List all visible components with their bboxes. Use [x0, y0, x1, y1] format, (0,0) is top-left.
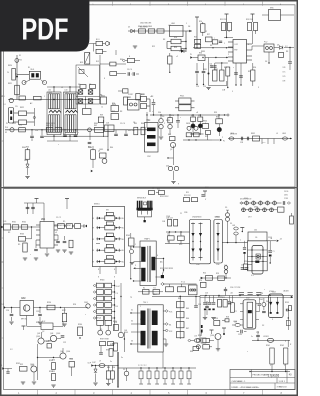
- resistor R918: [222, 319, 229, 322]
- svg-text:R17: R17: [207, 34, 210, 36]
- svg-text:D16: D16: [166, 166, 169, 168]
- svg-text:5: 5: [243, 4, 244, 6]
- svg-text:R45: R45: [186, 308, 189, 310]
- resistor R838: [198, 115, 203, 121]
- svg-text:Q04: Q04: [60, 351, 63, 353]
- svg-text:D2: D2: [262, 325, 264, 327]
- svg-text:Q801: Q801: [99, 149, 103, 151]
- svg-text:4.5.07: 4.5.07: [116, 286, 120, 288]
- wire: [163, 339, 166, 344]
- svg-text:R15: R15: [194, 37, 197, 39]
- diode D807: [78, 99, 83, 104]
- svg-text:ML: ML: [122, 262, 124, 264]
- svg-text:R940: R940: [198, 335, 202, 337]
- resistor R947: [177, 332, 185, 338]
- svg-text:RL: RL: [28, 67, 30, 69]
- power VCC4: [35, 199, 39, 204]
- resistor R828: [124, 97, 128, 105]
- capacitor C926: [251, 331, 260, 340]
- svg-text:PL1: PL1: [2, 96, 5, 98]
- svg-text:R9: R9: [100, 329, 102, 331]
- wire: [134, 267, 142, 269]
- wire: [166, 231, 190, 232]
- resistor R907: [75, 224, 81, 229]
- capacitor C921: [38, 308, 42, 322]
- transformer T901: [140, 237, 156, 285]
- resistor R934: [78, 327, 83, 339]
- svg-text:CN2: CN2: [147, 156, 151, 158]
- svg-text:10: 10: [152, 188, 154, 190]
- wire: [46, 248, 48, 253]
- resistor R926: [47, 305, 55, 310]
- resistor R911: [184, 198, 190, 202]
- svg-text:C29: C29: [198, 304, 201, 306]
- capacitor C815: [202, 63, 206, 85]
- capacitor C807: [210, 64, 217, 68]
- capacitor C825: [114, 130, 118, 136]
- svg-text:3: 3: [272, 319, 273, 321]
- svg-text:1: 1: [140, 306, 141, 308]
- svg-text:CN3: CN3: [196, 264, 199, 266]
- svg-text:ML: ML: [122, 218, 124, 220]
- wire: [93, 365, 118, 367]
- svg-text:Q904: Q904: [66, 351, 70, 353]
- svg-text:R934: R934: [78, 324, 82, 326]
- node: [53, 99, 86, 100]
- transistor Q802: [170, 142, 175, 147]
- svg-text:32: 32: [131, 321, 133, 323]
- resistor R866: [226, 67, 230, 88]
- resistor R845: [134, 127, 138, 135]
- inductor L804: [229, 137, 234, 140]
- svg-text:D9: D9: [225, 207, 227, 209]
- resistor R913: [290, 213, 294, 224]
- svg-text:C31: C31: [241, 265, 244, 267]
- ground: [69, 252, 73, 254]
- wire: [120, 283, 121, 332]
- resistor R916: [223, 300, 227, 308]
- svg-text:33: 33: [131, 341, 133, 343]
- resistor R869: [98, 117, 104, 123]
- node: [160, 258, 164, 264]
- wire: [152, 294, 293, 298]
- resistor R827: [111, 114, 119, 120]
- node: [95, 365, 96, 369]
- resistor R914: [244, 264, 248, 270]
- svg-text:g: g: [178, 183, 179, 185]
- resistor R933: [69, 362, 75, 377]
- svg-text:R24: R24: [114, 322, 117, 324]
- wire: [76, 97, 100, 109]
- wire: [104, 120, 109, 137]
- resistor R832: [220, 63, 224, 81]
- resistor R925: [114, 343, 118, 351]
- capacitor C824: [88, 142, 92, 143]
- svg-text:L03: L03: [65, 90, 68, 92]
- svg-text:R31: R31: [211, 67, 214, 69]
- svg-text:R.02: R.02: [42, 321, 45, 323]
- capacitor C821: [40, 130, 44, 138]
- svg-text:R54: R54: [199, 280, 202, 282]
- svg-text:R39: R39: [216, 117, 219, 119]
- wire: [146, 112, 147, 128]
- resistor R905: [54, 224, 64, 229]
- resistor R837: [191, 115, 196, 121]
- node CN905: [84, 302, 90, 308]
- transformer T902: [138, 302, 163, 352]
- svg-text:L802: L802: [48, 92, 52, 94]
- diode D907a: [242, 208, 246, 212]
- ground: [56, 250, 60, 252]
- svg-text:Q902: Q902: [36, 336, 40, 338]
- capacitor C813: [239, 76, 243, 77]
- resistor R873: [122, 56, 140, 63]
- inductor L912: [189, 285, 198, 295]
- svg-text:R850: R850: [203, 121, 207, 123]
- svg-text:CN02: CN02: [84, 302, 88, 304]
- svg-text:CN03: CN03: [192, 217, 196, 219]
- diode D902: [262, 298, 266, 310]
- node: [185, 30, 191, 49]
- transistor Q801: [98, 151, 107, 164]
- wire: [100, 50, 116, 100]
- resistor R915: [218, 300, 222, 308]
- svg-text:RL2: RL2: [96, 61, 99, 63]
- svg-text:R36: R36: [171, 115, 174, 117]
- node title-block: [230, 370, 295, 390]
- svg-text:PL: PL: [1, 365, 3, 367]
- svg-text:PL0: PL0: [5, 127, 8, 129]
- svg-text:R831: R831: [203, 69, 207, 71]
- wire: [268, 52, 269, 64]
- svg-text:8: 8: [98, 277, 99, 279]
- svg-text:D5: D5: [80, 89, 82, 91]
- svg-text:C15: C15: [203, 86, 206, 88]
- svg-text:2: 2: [140, 319, 141, 321]
- node: [153, 114, 225, 115]
- svg-text:R8: R8: [210, 45, 212, 47]
- svg-text:IC03: IC03: [272, 292, 276, 294]
- svg-text:R34: R34: [248, 71, 251, 73]
- svg-text:R33: R33: [70, 359, 73, 361]
- svg-text:C.9: C.9: [116, 293, 119, 295]
- inductor L913: [188, 338, 206, 343]
- capacitor C820: [30, 130, 34, 141]
- svg-text:D3: D3: [265, 61, 267, 63]
- svg-text:IC02: IC02: [246, 298, 250, 300]
- svg-text:1YEAR1.5X: 1YEAR1.5X: [277, 386, 288, 389]
- svg-text:5: 5: [232, 91, 233, 93]
- svg-text:SW5: SW5: [270, 7, 274, 9]
- resistor R919: [289, 306, 292, 311]
- svg-text:CN903: CN903: [196, 217, 201, 219]
- wire: [267, 239, 282, 243]
- svg-text:D0: D0: [162, 116, 164, 118]
- wire: [47, 136, 78, 141]
- wire: [173, 171, 175, 180]
- svg-text:R.9: R.9: [116, 306, 119, 308]
- diode D820: [179, 49, 186, 52]
- wire: [33, 108, 36, 126]
- svg-text:R33: R33: [199, 53, 202, 55]
- svg-text:R55: R55: [215, 318, 218, 320]
- resistor R836: [168, 115, 173, 135]
- svg-text:2: 2: [222, 137, 223, 139]
- wire: [114, 280, 116, 330]
- capacitor C914: [208, 296, 212, 311]
- resistor R822: [14, 111, 35, 116]
- svg-text:U12: U12: [235, 44, 238, 46]
- svg-text:R939: R939: [106, 350, 110, 352]
- diode D802: [103, 42, 110, 46]
- svg-text:17E: 17E: [283, 81, 286, 83]
- node: [222, 81, 227, 92]
- wire: [241, 209, 277, 211]
- svg-text:C08 C09: C08 C09: [166, 218, 173, 220]
- capacitor C804: [152, 99, 156, 115]
- svg-text:C20: C20: [35, 130, 38, 132]
- svg-text:R820: R820: [8, 65, 12, 67]
- resistor R810: [201, 22, 205, 36]
- diode D808: [88, 99, 93, 104]
- wire: [183, 139, 212, 140]
- svg-text:12: 12: [205, 31, 207, 33]
- power VCC3: [251, 14, 255, 22]
- svg-text:R35: R35: [107, 367, 110, 369]
- resistor RN901-ladder: [93, 283, 120, 320]
- node: [21, 319, 26, 321]
- ground: [216, 340, 220, 352]
- svg-text:R37: R37: [191, 115, 194, 117]
- svg-text:D901: D901: [244, 198, 248, 200]
- diode D907b: [249, 208, 253, 212]
- wire: [98, 267, 116, 279]
- svg-text:RL01: RL01: [31, 69, 35, 71]
- resistor R946: [177, 322, 185, 328]
- resistor R849: [194, 133, 200, 137]
- svg-text:2: 2: [180, 234, 181, 236]
- svg-text:R12: R12: [152, 46, 155, 48]
- svg-text:R825: R825: [101, 96, 105, 98]
- resistor R929: [47, 344, 51, 349]
- svg-text:8: 8: [114, 269, 115, 271]
- diode D905b: [252, 201, 256, 205]
- capacitor C907: [201, 195, 204, 196]
- svg-text:8: 8: [104, 78, 105, 80]
- resistor R924: [113, 325, 118, 331]
- node: [39, 307, 61, 308]
- diode D909: [196, 345, 212, 349]
- svg-text:C13: C13: [205, 293, 208, 295]
- svg-text:D902: D902: [259, 299, 263, 301]
- resistor R920: [286, 309, 290, 330]
- capacitor C929: [194, 296, 198, 307]
- wire: [139, 99, 150, 112]
- svg-text:C0: C0: [7, 72, 9, 74]
- capacitor C904: [56, 235, 60, 243]
- svg-text:R.5: R.5: [154, 287, 156, 289]
- svg-text:R53: R53: [216, 273, 219, 275]
- svg-text:C921: C921: [36, 311, 40, 313]
- svg-text:ML: ML: [122, 250, 124, 252]
- resistor R927: [62, 308, 66, 322]
- svg-text:R43: R43: [157, 189, 160, 191]
- op-amp U806-opto: [252, 44, 274, 52]
- svg-text:3x: 3x: [121, 357, 123, 359]
- svg-text:R52: R52: [203, 273, 206, 275]
- svg-text:C925: C925: [238, 334, 242, 336]
- node sheet2-border: [4, 189, 296, 390]
- capacitor C934: [243, 241, 246, 264]
- wire: [167, 31, 186, 52]
- svg-text:2: 2: [130, 4, 131, 6]
- svg-text:3: 3: [140, 333, 141, 335]
- svg-text:L804: L804: [230, 133, 234, 135]
- svg-text:1: 1: [93, 4, 94, 6]
- resistor R851: [206, 131, 211, 141]
- svg-text:D8: D8: [78, 84, 80, 86]
- resistor R834: [251, 63, 255, 86]
- svg-text:C1: C1: [273, 251, 275, 253]
- transistor Q903: [50, 335, 56, 341]
- svg-text:31: 31: [131, 310, 133, 312]
- resistor R841: [55, 128, 62, 133]
- ground: [190, 133, 204, 134]
- svg-text:1: 1: [270, 365, 271, 367]
- svg-text:C26: C26: [256, 332, 259, 334]
- svg-text:R46: R46: [141, 123, 144, 125]
- ground: [9, 322, 13, 324]
- resistor R937: [100, 342, 106, 346]
- capacitor C901: [26, 203, 30, 214]
- op-amp U805: [262, 7, 294, 20]
- svg-text:R928: R928: [36, 322, 40, 324]
- capacitor C909: [174, 220, 178, 227]
- resistor R944: [177, 302, 185, 308]
- svg-text:L9: L9: [99, 361, 101, 363]
- svg-text:C8: C8: [151, 96, 153, 98]
- svg-text:R902: R902: [22, 222, 26, 224]
- svg-text:Q02: Q02: [37, 333, 40, 335]
- svg-text:D818: D818: [186, 123, 190, 125]
- capacitor C910: [283, 201, 290, 205]
- svg-text:R937 R938: R937 R938: [100, 339, 109, 341]
- node bottom-margin-ticks: [38, 390, 263, 395]
- svg-text:3x: 3x: [110, 361, 112, 363]
- svg-text:R18: R18: [226, 317, 229, 319]
- wire: [128, 30, 192, 32]
- svg-text:R25: R25: [112, 344, 115, 346]
- resistor R943: [149, 191, 155, 195]
- ground: [21, 382, 25, 384]
- capacitor C823: [74, 130, 78, 137]
- capacitor C931: [241, 268, 249, 270]
- svg-text:L803: L803: [65, 92, 69, 94]
- diode D905c: [259, 201, 263, 205]
- svg-text:R821: R821: [8, 83, 12, 85]
- diode D905d: [266, 201, 270, 205]
- svg-text:2: 2: [285, 341, 286, 343]
- svg-text:R911 R912: R911 R912: [160, 196, 168, 198]
- wire: [167, 146, 173, 165]
- resistor R942: [284, 348, 288, 364]
- op-amp IC904: [20, 298, 34, 316]
- svg-text:CN2: CN2: [147, 120, 150, 122]
- svg-text:R32: R32: [224, 67, 227, 69]
- svg-text:R10: R10: [199, 21, 202, 23]
- svg-text:DRWR : <PDF NAME HERE>: DRWR : <PDF NAME HERE>: [232, 386, 260, 389]
- wire: [199, 296, 201, 341]
- wire: [118, 367, 196, 369]
- svg-text:R31: R31: [52, 371, 55, 373]
- svg-text:Q906: Q906: [210, 335, 214, 337]
- svg-text:3x: 3x: [251, 336, 253, 338]
- wire: [162, 352, 164, 368]
- diode D906: [224, 266, 228, 279]
- svg-text:Q01: Q01: [124, 330, 127, 332]
- ground: [45, 254, 49, 256]
- node side-margin-ticks: [1, 96, 4, 338]
- capacitor C932: [228, 296, 231, 304]
- ground: [38, 322, 42, 324]
- wire page-divider: [0, 187, 298, 189]
- resistor R829: [141, 97, 147, 102]
- svg-text:4: 4: [205, 4, 206, 6]
- capacitor C915: [212, 296, 216, 311]
- diode D819: [194, 126, 198, 130]
- svg-text:L805: L805: [282, 133, 286, 135]
- resistor R823: [80, 85, 86, 89]
- wire: [65, 199, 69, 210]
- fuse F901: [130, 250, 134, 254]
- node: [88, 363, 94, 367]
- svg-text:R11 R12: R11 R12: [220, 19, 227, 21]
- resistor R922: [178, 284, 186, 292]
- wire: [47, 86, 80, 88]
- capacitor C916: [239, 293, 244, 295]
- svg-text:17B: 17B: [283, 67, 286, 69]
- resistor R902: [21, 225, 28, 229]
- node section-box: [76, 65, 100, 104]
- svg-text:R11: R11: [186, 192, 189, 194]
- capacitor C928: [224, 287, 227, 296]
- svg-text:1: 1: [135, 244, 136, 246]
- svg-text:R903: R903: [20, 234, 24, 236]
- diode D803: [274, 46, 294, 50]
- svg-text:D10: D10: [158, 112, 161, 114]
- resistor R820: [7, 69, 18, 81]
- diode D901: [226, 210, 230, 243]
- transformer L803: [64, 86, 78, 136]
- wire: [163, 323, 171, 327]
- resistor R852: [253, 136, 260, 141]
- svg-text:C5 C6: C5 C6: [120, 123, 125, 125]
- svg-text:R822: R822: [20, 107, 24, 109]
- wire: [117, 352, 118, 388]
- node blackpad: [161, 270, 164, 278]
- resistor R821: [15, 85, 20, 95]
- svg-text:R26: R26: [112, 103, 115, 105]
- svg-text:C60: C60: [254, 230, 257, 232]
- svg-text:F1: F1: [19, 55, 21, 57]
- resistor R930: [52, 363, 56, 370]
- capacitor C811: [288, 47, 292, 70]
- svg-text:IC904: IC904: [21, 298, 26, 300]
- node net-17B: [283, 67, 287, 83]
- svg-text:D12: D12: [19, 125, 22, 127]
- resistor R833: [198, 55, 228, 61]
- resistor R912: [192, 198, 198, 202]
